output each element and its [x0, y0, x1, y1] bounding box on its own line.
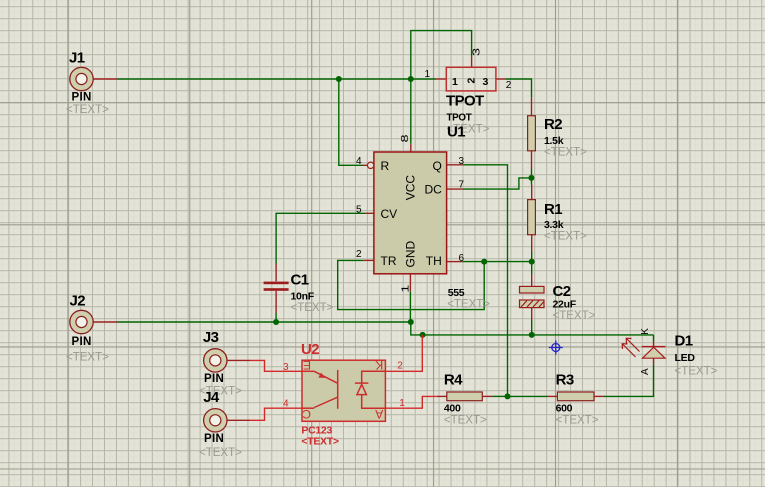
- pin stub 555 pin4 R: [363, 164, 368, 166]
- svg-text:<TEXT>: <TEXT>: [544, 231, 587, 243]
- capacitor C2 (electrolytic): [520, 283, 596, 322]
- pin stub 555 pin2 TR: [363, 259, 374, 261]
- svg-text:3: 3: [483, 76, 489, 88]
- LED D1: [622, 328, 717, 378]
- wire J2 main line: [118, 321, 411, 323]
- svg-text:3.3k: 3.3k: [544, 219, 564, 231]
- pin stub R4 right: [482, 395, 492, 397]
- pin stub C1 bottom: [275, 291, 277, 313]
- node TH/TR link: [481, 259, 487, 265]
- wire TH to TR link: [338, 260, 485, 309]
- wire 555 pin5 CV to C1: [276, 213, 365, 263]
- svg-text:1: 1: [400, 285, 411, 293]
- wire 555 GND pin1 down to main line: [409, 291, 411, 322]
- svg-text:<TEXT>: <TEXT>: [553, 310, 596, 322]
- svg-text:600: 600: [556, 403, 573, 415]
- wire J3 to U2 pin3: [250, 360, 302, 371]
- wire R3 right to D1 anode: [604, 364, 654, 396]
- svg-text:400: 400: [444, 403, 461, 415]
- svg-text:R3: R3: [556, 372, 574, 389]
- pin stub J3: [227, 359, 250, 361]
- svg-text:4: 4: [356, 156, 362, 167]
- pin stub R4 left: [437, 395, 447, 397]
- pin stub R2 bottom: [531, 151, 533, 169]
- svg-text:R1: R1: [544, 201, 562, 218]
- svg-text:C1: C1: [291, 272, 309, 289]
- wire J1 to TPOT pin1 (top net): [118, 78, 437, 80]
- svg-text:J2: J2: [70, 293, 86, 310]
- node main line/GND: [408, 319, 414, 325]
- pin stub R3 left: [547, 395, 557, 397]
- svg-text:6: 6: [459, 253, 465, 264]
- pin stub 555 pin6 TH: [447, 261, 463, 263]
- wire main line step down and lower ground line: [411, 322, 654, 335]
- pin stub 555 VCC pin8: [410, 144, 412, 152]
- capacitor C1: [264, 272, 334, 315]
- svg-text:PIN: PIN: [204, 373, 224, 385]
- connector J4: [199, 389, 242, 459]
- resistor R1: [528, 200, 588, 243]
- svg-text:R: R: [381, 159, 390, 173]
- pin stub R1 bottom: [531, 235, 533, 252]
- svg-text:J1: J1: [69, 50, 85, 67]
- pin stub R3 right: [594, 395, 604, 397]
- node lower line/U2 pin2: [420, 332, 426, 338]
- wire U2 pin1 to R4: [385, 396, 436, 408]
- node J1/VCC branch: [408, 76, 414, 82]
- svg-text:3: 3: [471, 48, 482, 56]
- pin stub D1 anode: [653, 358, 655, 364]
- svg-text:7: 7: [459, 180, 465, 191]
- pin stub J2: [93, 321, 118, 323]
- svg-text:22uF: 22uF: [553, 299, 577, 311]
- wire junction to 555 pin7 DC: [463, 178, 532, 189]
- svg-text:2: 2: [466, 78, 478, 84]
- svg-text:CV: CV: [381, 207, 398, 221]
- svg-text:<TEXT>: <TEXT>: [447, 299, 490, 311]
- svg-text:2: 2: [506, 80, 512, 91]
- wire 555 pin3 Q output down to R4/R3 node: [463, 165, 508, 397]
- svg-text:<TEXT>: <TEXT>: [444, 415, 487, 427]
- wire 555 pin6 TH line: [462, 261, 532, 263]
- svg-text:GND: GND: [404, 241, 418, 268]
- svg-text:LED: LED: [675, 352, 696, 364]
- pin stub C2 bottom: [531, 308, 533, 320]
- pin stub R1 top: [531, 185, 533, 200]
- svg-text:1.5k: 1.5k: [544, 135, 564, 147]
- emission arrows: [622, 338, 639, 357]
- svg-text:PIN: PIN: [72, 92, 92, 104]
- svg-text:<TEXT>: <TEXT>: [675, 366, 718, 378]
- resistor R4: [444, 372, 487, 427]
- node J1/R branch: [336, 76, 342, 82]
- node C1/main line: [273, 319, 279, 325]
- wire R2 bottom to junction: [531, 169, 533, 185]
- svg-text:A: A: [375, 407, 383, 421]
- node R2/R1/DC: [528, 175, 534, 181]
- wire C2 top stub green part: [531, 262, 533, 274]
- junction dots: [273, 76, 535, 399]
- pin stub R2 top: [531, 98, 533, 116]
- red wires of highlighted net (J3/J4/U2/R4): [250, 335, 437, 420]
- resistor R3: [556, 372, 599, 427]
- wire C2 bottom to lower line: [531, 320, 533, 335]
- svg-text:<TEXT>: <TEXT>: [301, 436, 338, 448]
- svg-text:<TEXT>: <TEXT>: [199, 447, 242, 459]
- svg-text:PIN: PIN: [72, 336, 92, 348]
- node R4/R3/Q: [505, 393, 511, 399]
- svg-text:TPOT: TPOT: [446, 92, 484, 109]
- wire C1 bottom to main line: [275, 313, 277, 322]
- wire R4 right to node: [492, 395, 507, 397]
- svg-text:1: 1: [425, 69, 431, 80]
- resistor R2: [528, 116, 588, 159]
- pin stub J1: [93, 78, 118, 80]
- node TH/R1/C2: [529, 259, 535, 265]
- svg-text:J4: J4: [203, 389, 220, 406]
- transistor side: [302, 370, 314, 372]
- svg-text:1: 1: [452, 76, 458, 88]
- wire node to R3 left: [508, 395, 548, 397]
- svg-text:U2: U2: [301, 341, 319, 358]
- svg-text:VCC: VCC: [404, 175, 418, 201]
- svg-text:J3: J3: [203, 329, 219, 346]
- wire TPOT pin2 to R2 top: [506, 79, 532, 98]
- IC U1 555 timer: [356, 134, 490, 310]
- svg-text:TR: TR: [381, 254, 397, 268]
- pin stub J4: [227, 419, 250, 421]
- connector J2: [66, 293, 109, 364]
- svg-text:2: 2: [397, 361, 403, 372]
- pin stub C2 top: [531, 274, 533, 286]
- connector J3: [199, 329, 242, 398]
- svg-text:<TEXT>: <TEXT>: [544, 147, 587, 159]
- svg-text:555: 555: [448, 287, 465, 299]
- svg-text:U1: U1: [447, 124, 465, 141]
- svg-text:Q: Q: [432, 159, 441, 173]
- svg-text:K: K: [375, 358, 383, 372]
- svg-text:5: 5: [356, 205, 362, 216]
- svg-text:<TEXT>: <TEXT>: [66, 352, 109, 364]
- wire R1 bottom to TH node: [531, 252, 533, 262]
- svg-text:10nF: 10nF: [291, 291, 315, 303]
- svg-text:3: 3: [459, 156, 465, 167]
- wire branch to 555 VCC pin8 and TPOT pin3 top loop: [411, 31, 472, 144]
- pin stub D1 cathode: [653, 342, 655, 347]
- pin stub 555 pin7 DC: [447, 188, 463, 190]
- node lower line/C2: [529, 332, 535, 338]
- svg-text:C2: C2: [553, 283, 571, 300]
- wire U2 pin2 up to ground line: [385, 335, 422, 371]
- svg-text:R2: R2: [544, 116, 562, 133]
- pin stub TPOT pin1: [436, 78, 446, 80]
- potentiometer TPOT: [425, 48, 512, 141]
- svg-text:A: A: [640, 368, 651, 375]
- svg-text:<TEXT>: <TEXT>: [291, 302, 334, 314]
- svg-text:TPOT: TPOT: [447, 112, 472, 123]
- svg-text:<TEXT>: <TEXT>: [556, 415, 599, 427]
- optocoupler U2 PC123 (highlighted red): [302, 360, 385, 421]
- wire D1 cathode up to lower line: [653, 335, 655, 342]
- pin stub 555 GND pin1: [409, 274, 411, 291]
- pin stub 555 pin5 CV: [365, 212, 374, 214]
- pin stub C1 top: [275, 264, 277, 282]
- svg-text:K: K: [640, 328, 651, 335]
- blue origin marker: [549, 341, 563, 355]
- pin stub TPOT pin2: [496, 78, 506, 80]
- svg-text:TH: TH: [426, 254, 442, 268]
- svg-text:8: 8: [399, 134, 410, 142]
- connector J1: [66, 50, 109, 117]
- svg-text:D1: D1: [675, 333, 693, 350]
- svg-text:DC: DC: [424, 182, 442, 196]
- svg-text:PIN: PIN: [204, 433, 224, 445]
- svg-text:1: 1: [399, 398, 405, 409]
- wire branch to 555 pin 4 R: [339, 79, 363, 165]
- photodiode side: [362, 371, 386, 383]
- svg-text:E: E: [303, 358, 311, 372]
- pin4 inversion bubble: [367, 162, 373, 168]
- pin stub 555 pin3 Q: [447, 164, 463, 166]
- svg-text:<TEXT>: <TEXT>: [66, 104, 109, 116]
- pin stub TPOT pin3: [471, 57, 473, 68]
- svg-text:R4: R4: [444, 372, 463, 389]
- svg-text:2: 2: [356, 249, 362, 260]
- wire J4 to U2 pin4: [250, 408, 302, 420]
- svg-text:C: C: [302, 407, 311, 421]
